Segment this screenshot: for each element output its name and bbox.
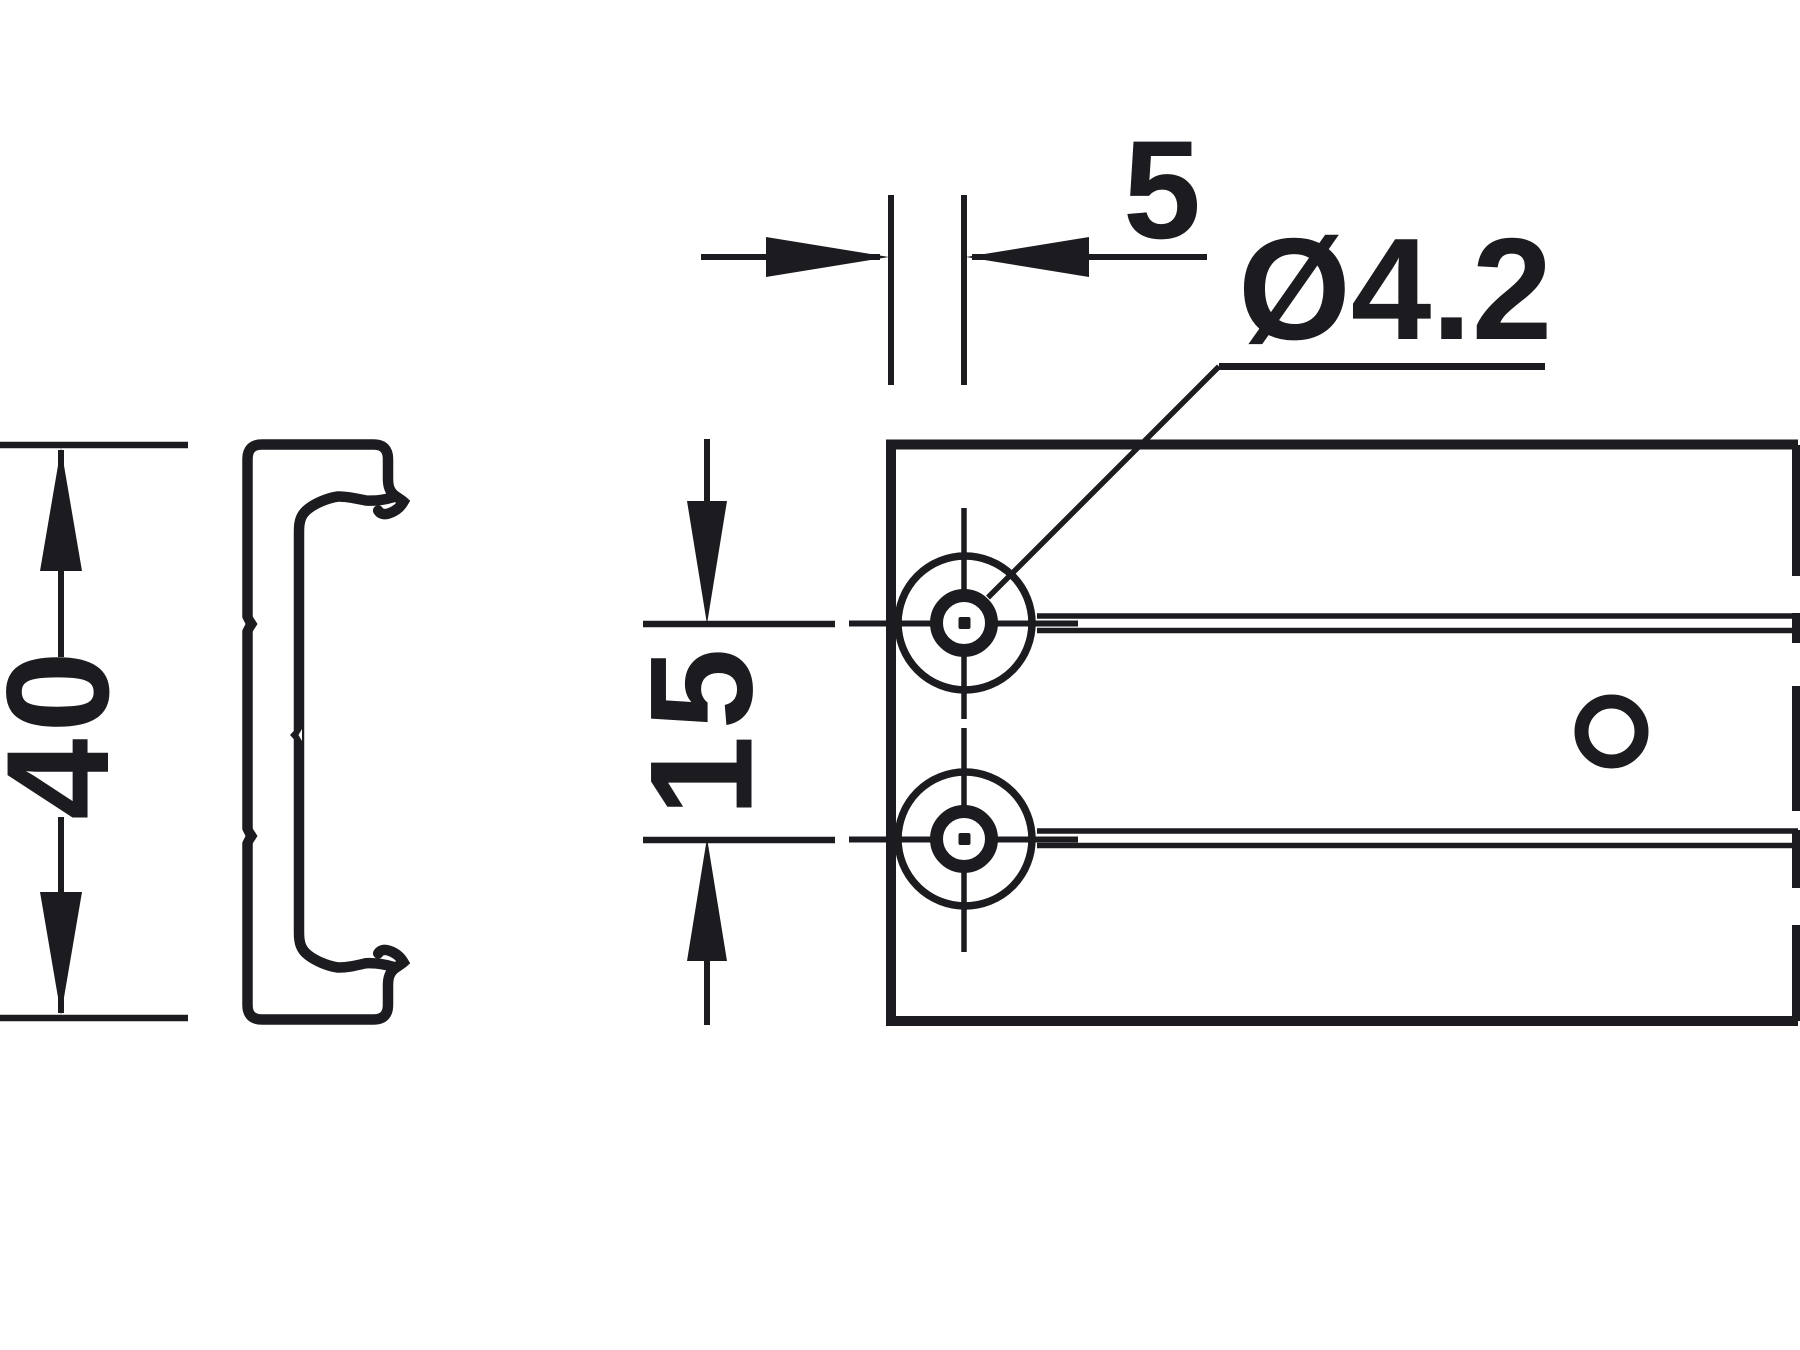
svg-text:Ø4.2: Ø4.2: [1238, 208, 1552, 370]
hole 1: center dot: [959, 617, 971, 629]
hole 2: countersink outer circle: [898, 772, 1032, 906]
profile cross-section: outer contour with top and bottom lips: [248, 445, 404, 1020]
dimension 5: value label "5": [1123, 111, 1201, 268]
dimension 40: top extension line: [0, 442, 188, 449]
dimension 5: left tick line (plate edge): [888, 195, 894, 385]
profile cross-section: kink mark on outer left edge (upper): [240, 613, 258, 635]
slot 2: upper and lower groove lines: [1037, 831, 1798, 846]
svg-text:40: 40: [0, 645, 139, 819]
profile cross-section: kink mark on outer left edge (lower): [240, 825, 258, 847]
hole 1: countersink outer circle: [898, 556, 1032, 690]
mounting plate: bottom edge: [886, 1016, 1798, 1026]
label diameter 4.2: underline: [1219, 363, 1545, 370]
hole 1: horizontal centerline: [643, 620, 1078, 627]
hole 1: vertical centerline: [961, 508, 967, 952]
dimension 40: dimension line with arrowheads: [40, 448, 82, 1015]
hole 2: bore ring: [937, 812, 992, 867]
mounting plate: broken right edge segments: [1792, 445, 1800, 1021]
mounting plate: left edge: [886, 440, 896, 1026]
label diameter 4.2: leader line to hole 1: [988, 367, 1219, 598]
dimension 15: upper line with arrow pointing down: [687, 439, 727, 624]
dimension 5: left arrow pointing right: [701, 237, 889, 277]
profile cross-section: inner channel contour: [299, 496, 394, 967]
svg-text:15: 15: [620, 642, 783, 816]
profile cross-section: kink mark on inner wall: [290, 728, 302, 742]
dimension 15: lower line with arrow pointing up: [687, 838, 727, 1025]
small circle on plate: [1582, 702, 1642, 762]
hole 2: horizontal centerline: [643, 836, 1078, 843]
dimension 5: right arrow pointing left: [966, 237, 1207, 277]
dimension 15: value label "15" (rotated): [620, 642, 783, 816]
dimension 40: bottom extension line: [0, 1015, 188, 1022]
slot 1: upper and lower groove lines: [1037, 616, 1798, 631]
dimension 5: right tick line (hole axis): [961, 195, 967, 385]
hole 1: bore ring: [937, 596, 992, 651]
label diameter 4.2: text: [1238, 208, 1552, 370]
mounting plate: top edge: [886, 440, 1798, 450]
dimension 40: value label "40" (rotated): [0, 645, 139, 819]
hole 2: center dot: [959, 833, 971, 845]
svg-text:5: 5: [1123, 111, 1201, 268]
